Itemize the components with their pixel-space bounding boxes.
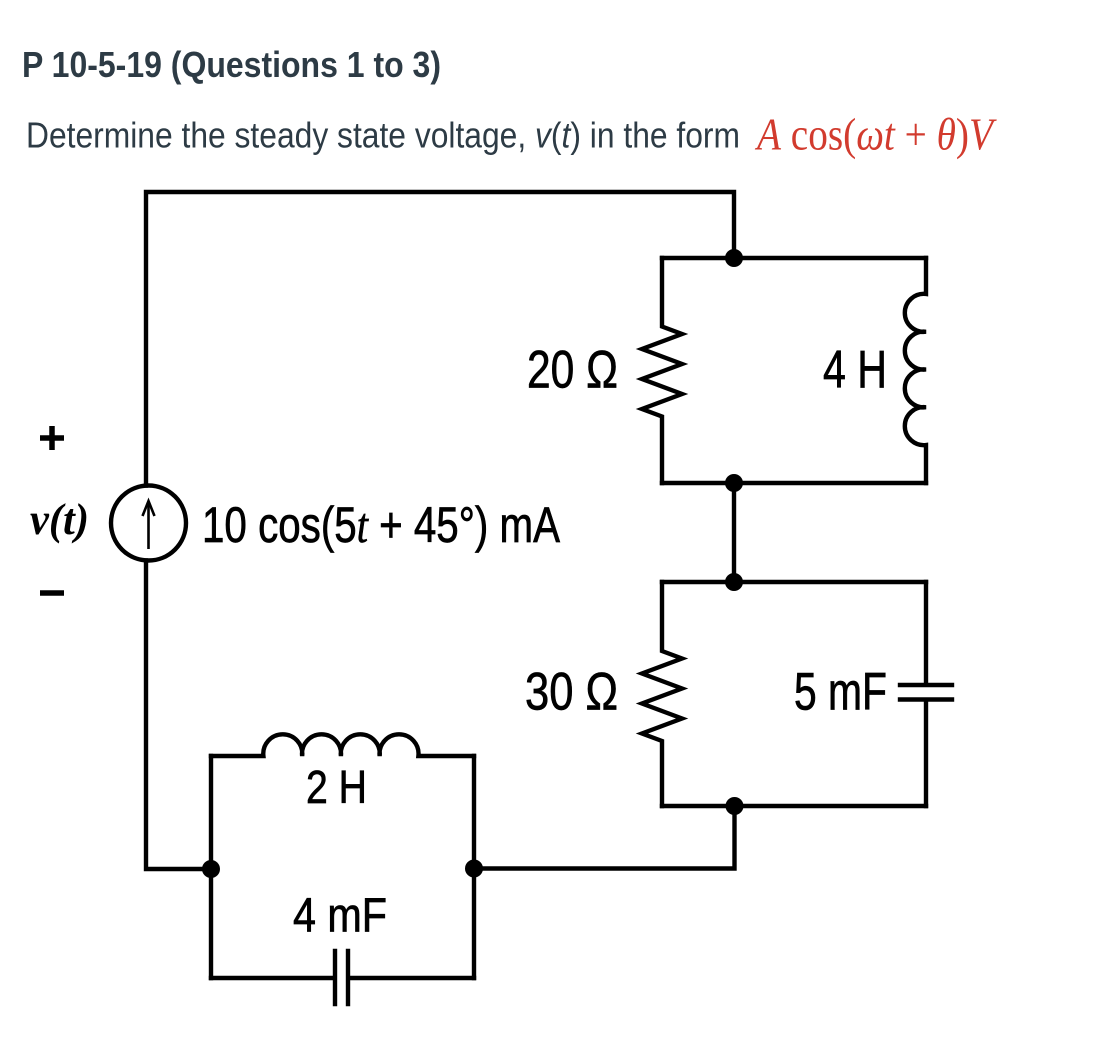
current source circle <box>111 486 186 561</box>
wire top from source to right branch <box>146 192 734 486</box>
node D bottom of lower-right box <box>726 797 744 815</box>
wire top edge of lower-right box <box>662 580 926 584</box>
plus sign <box>40 426 64 450</box>
capacitor 4 mF <box>211 951 474 1004</box>
inductor 4 H <box>905 258 926 483</box>
resistor 30 ohm <box>642 582 682 806</box>
node C between boxes lower <box>725 573 743 591</box>
svg-text:4 mF: 4 mF <box>293 890 387 943</box>
resistor 20 ohm <box>642 258 682 483</box>
wire left edge of bottom-left box <box>209 756 213 978</box>
svg-text:P 10-5-19 (Questions 1 to 3): P 10-5-19 (Questions 1 to 3) <box>22 44 441 85</box>
wire link between the two right boxes <box>732 483 736 582</box>
wire right edge of bottom-left box <box>472 756 476 978</box>
svg-text:v(t): v(t) <box>30 495 89 544</box>
svg-text:30 Ω: 30 Ω <box>525 663 618 722</box>
svg-text:20 Ω: 20 Ω <box>527 341 618 400</box>
svg-text:4 H: 4 H <box>823 341 887 400</box>
current source arrow <box>143 501 155 549</box>
svg-text:Determine the steady state vol: Determine the steady state voltage, v(t)… <box>26 115 740 156</box>
wire top edge of upper-right box <box>662 256 926 260</box>
capacitor 5 mF <box>900 582 952 806</box>
svg-text:5 mF: 5 mF <box>794 663 887 722</box>
wire bottom edge of lower-right box <box>662 804 926 808</box>
wire bottom edge of upper-right box <box>662 481 926 485</box>
svg-text:2 H: 2 H <box>306 761 367 813</box>
inductor 2 H <box>211 734 474 756</box>
svg-text:A cos(ωt + θ)V: A cos(ωt + θ)V <box>754 109 997 160</box>
node F right of bottom-left box <box>465 860 483 878</box>
wire bottom from lower-right box to bottom-left box <box>474 806 735 869</box>
wire left below source down and to bottom-left box <box>146 561 211 870</box>
svg-text:10 cos(5t + 45°) mA: 10 cos(5t + 45°) mA <box>202 497 561 553</box>
node E left of bottom-left box <box>202 860 220 878</box>
minus sign <box>40 590 64 596</box>
node B between boxes upper <box>725 474 743 492</box>
node A top junction <box>725 249 743 267</box>
